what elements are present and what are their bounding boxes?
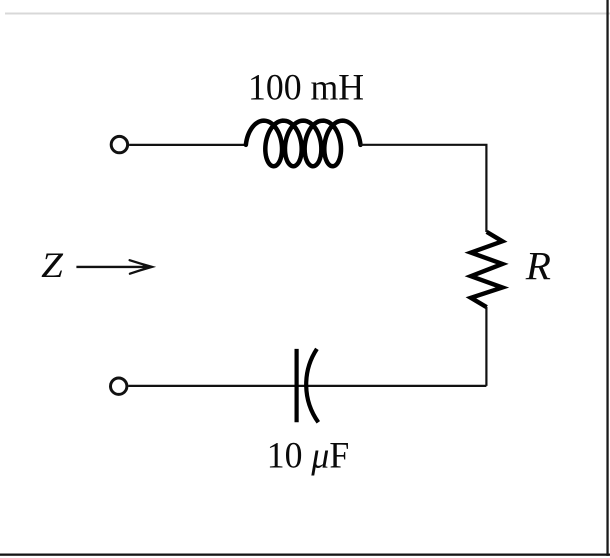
- resistor R: [471, 232, 503, 307]
- terminal bottom-left: [111, 378, 127, 394]
- terminal top-left: [111, 136, 127, 152]
- wire right-bottom: [485, 307, 487, 386]
- svg-text:Z: Z: [41, 245, 64, 285]
- svg-text:R: R: [525, 244, 551, 289]
- capacitor C1 curved plate: [306, 349, 318, 422]
- capacitor C1 10 uF : flat plate: [295, 349, 299, 422]
- wire top-right: [360, 145, 487, 232]
- wire bottom: [128, 385, 486, 387]
- svg-text:10 μF: 10 μF: [267, 435, 350, 476]
- wire top-left: [129, 144, 246, 146]
- svg-text:100 mH: 100 mH: [248, 67, 364, 108]
- inductor L1 100 mH: [246, 121, 361, 167]
- arrow for Z: [76, 266, 148, 268]
